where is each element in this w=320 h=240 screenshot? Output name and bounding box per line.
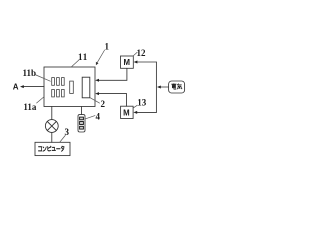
lamp cross [47, 122, 56, 131]
wire electricity to trunk [160, 86, 169, 88]
svg-text:11: 11 [78, 52, 88, 62]
motor box M 12 [121, 56, 134, 68]
middle slot [70, 81, 74, 93]
driver block 2 [82, 77, 90, 98]
leader 11 [72, 60, 80, 67]
connector 11b row1 rect2 [57, 78, 60, 86]
leader 11b [35, 75, 51, 82]
svg-text:12: 12 [137, 48, 147, 58]
wire A arrow [23, 86, 44, 88]
arrowhead A [20, 85, 24, 88]
motor box M 13 [121, 106, 134, 118]
leader 11a [37, 97, 44, 103]
connector 11a row2 rect1 [52, 90, 55, 97]
connector 11a row2 rect2 [57, 90, 60, 97]
leader 4 [85, 116, 95, 119]
arrowhead into M13 [133, 111, 137, 114]
katakana TA (computer char6) [61, 146, 64, 151]
wire M12 to box [98, 68, 127, 80]
leader 12 [133, 52, 137, 56]
connector 11b row1 rect3 [62, 78, 65, 86]
leader 2 [90, 98, 99, 103]
katakana N (computer char2) [43, 147, 46, 151]
wire box to sensor 4 [81, 107, 83, 115]
sensor unit 4 cell2 [80, 122, 84, 125]
svg-text:2: 2 [100, 99, 105, 109]
wire M13 to box [98, 94, 126, 107]
wire trunk to M13 [136, 111, 156, 113]
arrowhead electricity [157, 86, 161, 89]
kanji DEN (electricity char1) [172, 84, 177, 90]
sensor unit 4 cell1 [80, 117, 84, 120]
leader 13 [134, 105, 138, 108]
arrowhead into M12 [134, 61, 138, 64]
svg-text:11b: 11b [23, 68, 37, 78]
connector 11a row2 rect3 [62, 90, 65, 97]
arrowhead M12 wire [95, 79, 99, 82]
svg-text:13: 13 [137, 98, 147, 108]
control unit box 11 [44, 67, 95, 107]
svg-text:M: M [123, 108, 130, 117]
sensor unit 4 body [78, 115, 85, 132]
svg-text:11a: 11a [23, 102, 37, 112]
connector 11b row1 rect1 [52, 78, 55, 86]
katakana long dash (computer char5) [57, 148, 61, 150]
svg-text:4: 4 [95, 111, 100, 121]
svg-text:A: A [13, 83, 19, 92]
svg-text:M: M [123, 58, 130, 67]
electricity box [169, 81, 185, 93]
arrowhead M13 wire [95, 92, 99, 95]
computer box 3 [35, 142, 70, 155]
arrowhead leader 1 [96, 62, 99, 65]
svg-text:1: 1 [104, 42, 109, 52]
trunk wire [155, 62, 157, 112]
katakana YU (computer char4) [52, 147, 56, 150]
lamp circle [45, 120, 58, 133]
katakana KO (computer char1) [38, 147, 41, 151]
katakana PI (computer char3) [48, 146, 51, 151]
wire box to lamp [51, 107, 53, 120]
wire trunk to M12 [137, 61, 157, 63]
svg-text:3: 3 [65, 127, 70, 137]
sensor unit 4 cell3 [80, 126, 84, 129]
leader 3 [60, 135, 65, 142]
kanji KI (electricity char2) [177, 84, 182, 89]
wire lamp to computer [51, 132, 53, 142]
leader 1 [97, 50, 105, 63]
